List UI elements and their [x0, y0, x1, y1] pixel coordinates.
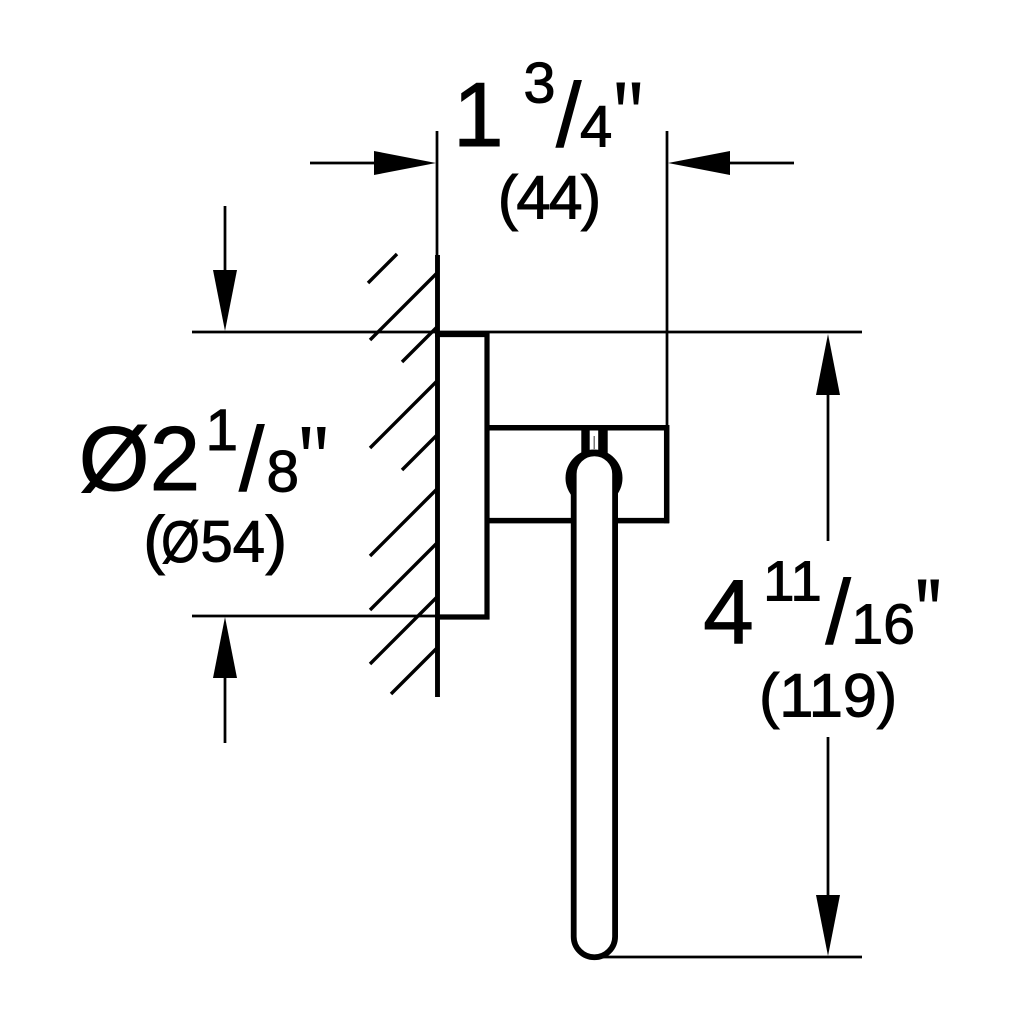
dimension arrow d54 bottom tail — [224, 676, 227, 743]
extension line bottom left y616 — [192, 615, 437, 618]
svg-text:Ø: Ø — [161, 510, 199, 575]
svg-text:54: 54 — [201, 510, 266, 575]
pivot pin slot — [593, 436, 595, 449]
arm bottom edge — [488, 518, 669, 524]
svg-text:1: 1 — [453, 65, 504, 166]
dimension line 44 right tail — [728, 162, 794, 165]
wall hatch isolated top — [368, 254, 397, 283]
dimension line 44 left tail — [310, 162, 378, 165]
svg-text:/: / — [556, 65, 582, 166]
wall line — [435, 255, 440, 697]
arm top edge — [488, 425, 669, 431]
extension line top left (wall face) — [436, 131, 439, 258]
svg-text:(119): (119) — [759, 662, 897, 731]
pivot boss — [566, 450, 623, 507]
dimension arrow 119 top head — [816, 334, 840, 395]
svg-text:11: 11 — [763, 550, 822, 613]
svg-text:4: 4 — [703, 562, 754, 663]
dimension arrow 44 left — [374, 151, 436, 175]
svg-text:(44): (44) — [498, 164, 600, 232]
holder ring rod — [574, 453, 615, 957]
svg-text:8: 8 — [267, 440, 300, 505]
extension line bottom right y957 — [597, 956, 862, 959]
escutcheon wall plate — [435, 335, 487, 618]
svg-text:Ø2: Ø2 — [79, 409, 200, 510]
wall hatch 2 short — [402, 327, 437, 362]
wall hatch 8 bottom clipped — [391, 648, 437, 694]
arm right edge — [664, 425, 670, 523]
wall hatch 1 long — [370, 273, 437, 340]
svg-text:/: / — [239, 410, 265, 511]
svg-text:3: 3 — [524, 52, 556, 116]
label 4 11/16 inch — [703, 550, 939, 664]
svg-text:/: / — [826, 562, 852, 663]
extension line horizontal y332 — [192, 331, 862, 334]
wall hatch 5 long — [370, 489, 437, 556]
svg-text:16: 16 — [852, 593, 915, 657]
wall hatch 7 long — [370, 597, 437, 664]
dimension arrow d54 top head — [213, 270, 237, 331]
pivot pin left bar — [581, 427, 589, 453]
wall hatch 6 long — [370, 543, 437, 610]
wall hatch 3 long — [370, 381, 437, 448]
wall hatch 4 short — [402, 435, 437, 470]
dimension line 119 upper segment — [827, 394, 830, 541]
dimension arrow 119 bottom head — [816, 895, 840, 956]
dimension arrow d54 bottom head — [213, 617, 237, 678]
dimension arrow 44 right — [668, 151, 730, 175]
label 1 3/4 inch — [453, 52, 640, 167]
label diameter 2 1/8 inch — [79, 398, 326, 511]
dimension arrow d54 top tail — [224, 206, 227, 274]
pivot pin right bar — [598, 427, 608, 453]
svg-text:1: 1 — [206, 398, 239, 463]
extension line top right — [666, 131, 669, 425]
svg-text:4: 4 — [580, 95, 612, 160]
svg-text:): ) — [266, 503, 288, 576]
dimension line 119 lower segment — [827, 737, 830, 896]
label (d54) — [143, 503, 287, 576]
